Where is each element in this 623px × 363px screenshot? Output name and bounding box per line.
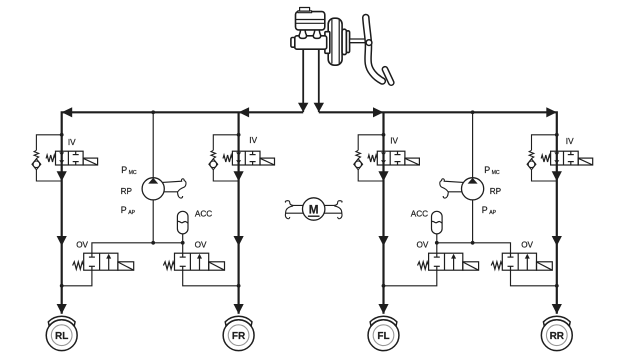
svg-text:OV: OV [76, 241, 88, 250]
junction: pump 1 at return manifold [151, 241, 155, 245]
return pump RP (right) [440, 178, 484, 200]
pedal clevis pin [366, 40, 372, 46]
svg-text:FL: FL [377, 331, 389, 342]
junction: pump 2 at bus [471, 110, 475, 114]
reservoir funnel right [313, 29, 320, 38]
svg-text:ACC: ACC [195, 210, 212, 219]
flow arrow: RL line mid [57, 236, 67, 246]
check valve bypass (FR circuit) [209, 133, 241, 181]
wire: master cylinder primary output [302, 49, 304, 112]
svg-text:P: P [484, 165, 490, 175]
motor drive linkage (right) [324, 201, 342, 219]
svg-text:OV: OV [521, 241, 533, 250]
wire: OV FR outlet to main line [183, 270, 239, 286]
flow arrow: bus toward FL circuit [373, 107, 384, 117]
reservoir cap lip [298, 11, 312, 13]
svg-text:RP: RP [490, 187, 502, 196]
outlet valve OV (FR circuit) [163, 253, 224, 270]
junction: accumulator 1 tee [181, 241, 185, 245]
svg-text:P: P [121, 205, 127, 215]
flow arrow below IV (RR) [552, 171, 562, 181]
brake pedal arm [366, 18, 383, 82]
wire: pump 2 suction/return line [472, 112, 474, 243]
svg-text:M: M [309, 202, 319, 216]
mounting flange [325, 32, 330, 54]
wire: master cylinder secondary output [318, 49, 320, 112]
master cylinder / booster / pedal assembly [291, 8, 369, 66]
flow arrow: bus toward RL circuit [62, 107, 72, 117]
flow arrow into RR [552, 304, 562, 314]
booster flange disc 2 [342, 29, 346, 54]
MC left end cap [291, 38, 296, 48]
return pump RP (left) [142, 178, 186, 200]
svg-text:RL: RL [55, 331, 68, 342]
svg-text:AP: AP [128, 210, 135, 216]
junction: pump 1 at bus [151, 110, 155, 114]
booster flange disc 3 [346, 31, 349, 53]
wire: FR circuit main line [238, 112, 240, 313]
wheel brake FL [368, 316, 399, 350]
flow arrow: bus toward FR circuit [239, 107, 250, 117]
flow arrow into FL [378, 304, 388, 314]
wire: left return manifold [92, 243, 183, 253]
svg-text:IV: IV [249, 136, 257, 145]
check valve bypass (RL circuit) [32, 133, 64, 181]
flow arrow: MC secondary into bus [314, 103, 324, 112]
flow arrow below IV (FL) [378, 171, 388, 181]
wheel brake RL [46, 316, 77, 350]
flow arrow below IV (FR) [234, 171, 244, 181]
reservoir [296, 12, 325, 30]
wheel brake FR [223, 316, 254, 350]
wire: OV RL outlet to main line [62, 270, 92, 286]
svg-text:IV: IV [390, 136, 398, 145]
outlet valve OV (RL circuit) [73, 253, 134, 270]
flow arrow: bus toward RR circuit [546, 107, 557, 117]
accumulator ACC (right) [432, 211, 443, 234]
svg-text:IV: IV [68, 138, 76, 147]
pump motor M [303, 198, 325, 220]
wire: OV RR outlet to main line [511, 270, 557, 286]
accumulator ACC (left) [177, 211, 188, 234]
flow arrow into FR [234, 304, 244, 314]
flow arrow below IV (RL) [57, 171, 67, 181]
junction: OV FR return on FR line [237, 284, 241, 288]
booster shell [328, 18, 342, 65]
inlet valve IV (RR circuit) [541, 151, 593, 165]
wire: right return manifold [437, 243, 511, 253]
junction: accumulator 2 tee [435, 241, 439, 245]
wire: accumulator 2 / OV FL riser [436, 234, 438, 253]
reservoir funnel left [299, 29, 306, 38]
flow arrow into RL [57, 304, 67, 314]
inlet valve IV (FR circuit) [223, 151, 275, 165]
svg-text:MC: MC [492, 170, 500, 176]
brake pedal pad [385, 69, 391, 82]
svg-text:AP: AP [489, 210, 496, 216]
svg-text:P: P [482, 205, 488, 215]
wire: pump 1 suction/return line [152, 112, 154, 243]
junction: OV FL return on FL line [382, 284, 386, 288]
outlet valve OV (FL circuit) [418, 253, 479, 270]
svg-text:OV: OV [195, 241, 207, 250]
booster pushrod [350, 39, 369, 43]
reservoir cap [300, 8, 310, 12]
svg-text:RP: RP [121, 187, 133, 196]
svg-text:FR: FR [232, 331, 246, 342]
svg-text:RR: RR [550, 331, 565, 342]
flow arrow: FR line mid [234, 236, 244, 246]
check valve bypass (RR circuit) [527, 133, 559, 181]
master cylinder body [295, 36, 327, 49]
inlet valve IV (FL circuit) [368, 151, 420, 165]
svg-text:ACC: ACC [411, 210, 428, 219]
motor drive linkage (left) [285, 201, 303, 219]
junction: OV RR return on RR line [555, 284, 559, 288]
inlet valve IV (RL circuit) [46, 151, 98, 165]
svg-text:OV: OV [417, 241, 429, 250]
wire: FL circuit main line [382, 112, 384, 313]
wire: OV FL outlet to main line [384, 270, 437, 286]
wire: right supply bus + RR circuit main line [319, 112, 557, 313]
junction: pump 2 at return manifold [471, 241, 475, 245]
svg-text:P: P [121, 165, 127, 175]
svg-text:IV: IV [566, 137, 574, 146]
check valve bypass (FL circuit) [354, 133, 386, 181]
wire: accumulator 1 / OV FR riser [182, 234, 184, 253]
outlet valve OV (RR circuit) [491, 253, 552, 270]
flow arrow: MC primary into bus [298, 103, 308, 112]
junction: OV RL return on RL line [60, 284, 64, 288]
wire: left supply bus + RL circuit main line [62, 112, 304, 313]
flow arrow: FL line mid [378, 236, 388, 246]
svg-text:MC: MC [129, 170, 137, 176]
wheel brake RR [541, 316, 572, 350]
flow arrow: RR line mid [552, 236, 562, 246]
